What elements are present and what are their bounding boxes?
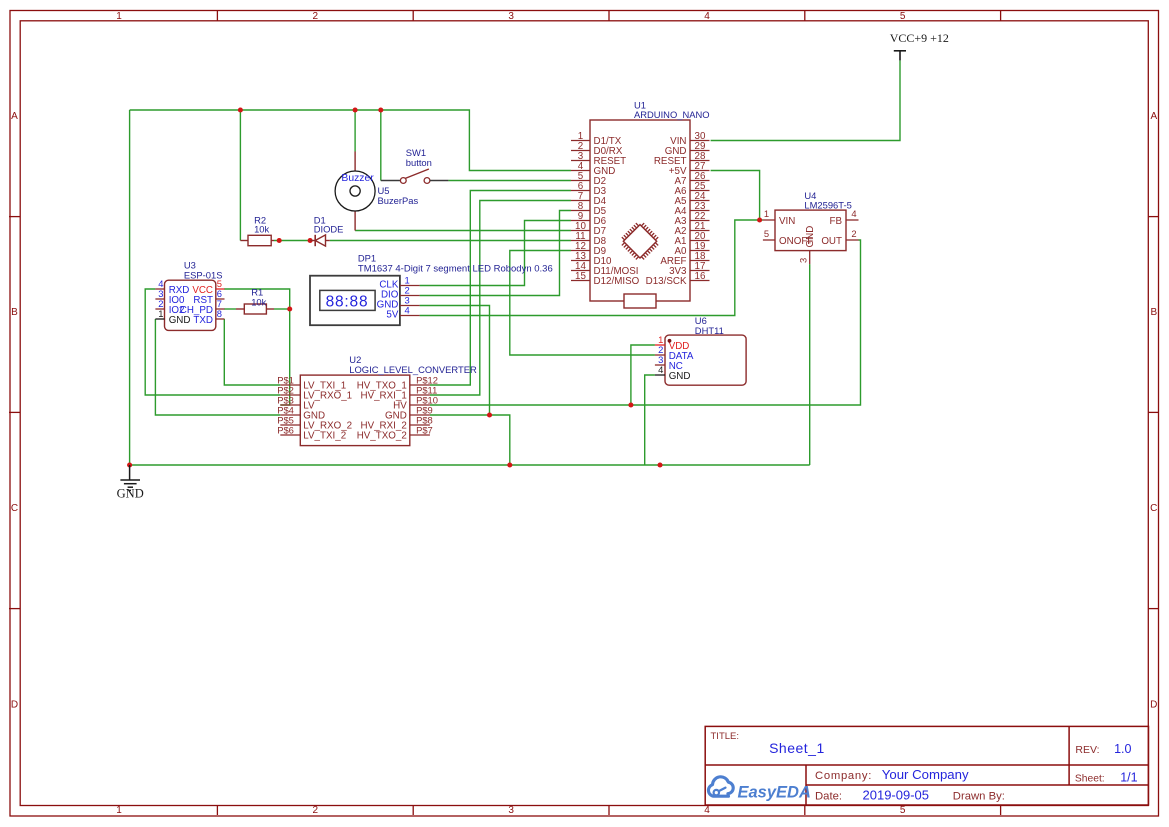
svg-text:5: 5 [764,228,769,239]
svg-text:P$6: P$6 [277,425,294,436]
svg-text:1/1: 1/1 [1120,771,1137,785]
svg-text:P$7: P$7 [416,425,433,436]
svg-text:VCC+9 +12: VCC+9 +12 [890,31,949,45]
svg-text:10k: 10k [251,296,266,307]
svg-text:TM1637 4-Digit 7 segment LED R: TM1637 4-Digit 7 segment LED Robodyn 0.3… [358,264,553,275]
svg-text:button: button [406,157,432,168]
svg-text:GND: GND [669,371,691,382]
svg-text:B: B [11,307,18,318]
svg-text:Company:: Company: [815,770,872,782]
svg-text:88:88: 88:88 [326,293,369,310]
svg-text:10k: 10k [254,223,269,234]
svg-text:LM2596T-5: LM2596T-5 [804,200,851,211]
svg-text:2: 2 [313,805,319,816]
svg-text:D12/MISO: D12/MISO [594,276,640,287]
svg-text:DHT11: DHT11 [695,325,724,336]
svg-text:3: 3 [798,258,809,263]
svg-text:VIN: VIN [779,216,795,227]
svg-text:2: 2 [851,228,856,239]
svg-text:TXD: TXD [193,315,213,326]
svg-text:5: 5 [900,805,906,816]
svg-text:5: 5 [900,11,906,22]
svg-text:OUT: OUT [821,236,842,247]
svg-text:GND: GND [169,315,191,326]
svg-text:C: C [1150,503,1157,514]
svg-text:TITLE:: TITLE: [711,731,740,742]
svg-text:ARDUINO_NANO: ARDUINO_NANO [634,109,710,120]
svg-text:1: 1 [158,308,163,319]
svg-text:DP1: DP1 [358,253,376,264]
svg-text:15: 15 [575,271,586,282]
svg-text:5V: 5V [386,310,398,321]
svg-text:4: 4 [658,364,663,375]
svg-text:D: D [1150,699,1157,710]
svg-text:GND: GND [805,226,816,248]
svg-text:1: 1 [116,805,122,816]
svg-text:A: A [11,111,18,122]
svg-text:A: A [1150,111,1157,122]
svg-text:2019-09-05: 2019-09-05 [863,788,930,803]
svg-text:B: B [1150,307,1157,318]
svg-text:LOGIC_LEVEL_CONVERTER: LOGIC_LEVEL_CONVERTER [349,364,477,375]
svg-text:16: 16 [695,271,706,282]
svg-text:4: 4 [704,11,710,22]
svg-text:FB: FB [829,216,842,227]
svg-text:1: 1 [764,208,769,219]
svg-text:3: 3 [508,805,514,816]
svg-text:Drawn By:: Drawn By: [953,791,1005,803]
svg-text:4: 4 [405,305,410,316]
svg-text:Sheet_1: Sheet_1 [769,740,825,756]
svg-text:4: 4 [704,805,710,816]
svg-text:DIODE: DIODE [314,223,344,234]
svg-text:2: 2 [313,11,319,22]
svg-text:REV:: REV: [1075,744,1099,756]
svg-text:D: D [11,699,18,710]
svg-text:HV_TXO_2: HV_TXO_2 [357,431,407,442]
svg-text:C: C [11,503,18,514]
svg-text:8: 8 [217,308,222,319]
svg-text:3: 3 [508,11,514,22]
svg-text:GND: GND [117,487,144,501]
svg-text:Your Company: Your Company [882,767,969,782]
svg-text:BuzerPas: BuzerPas [378,195,419,206]
svg-text:Sheet:: Sheet: [1075,774,1105,785]
svg-text:4: 4 [851,208,856,219]
svg-text:EasyEDA: EasyEDA [738,783,811,801]
svg-text:Buzzer: Buzzer [341,173,374,184]
svg-text:1.0: 1.0 [1114,742,1131,756]
svg-text:D13/SCK: D13/SCK [646,276,687,287]
svg-text:1: 1 [116,11,122,22]
svg-text:ESP-01S: ESP-01S [184,269,223,280]
svg-text:Date:: Date: [815,791,842,803]
svg-text:LV_TXI_2: LV_TXI_2 [303,431,346,442]
